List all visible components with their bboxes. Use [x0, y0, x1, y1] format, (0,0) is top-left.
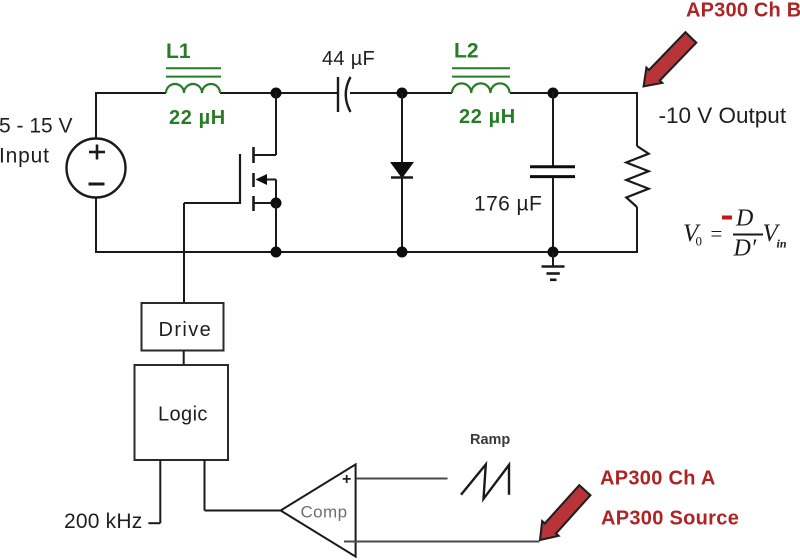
svg-text:200 kHz: 200 kHz: [64, 510, 142, 533]
svg-text:AP300 Source: AP300 Source: [601, 508, 739, 530]
arrow AP300 Ch B: [636, 30, 699, 94]
svg-text:L2: L2: [454, 40, 479, 63]
capacitor C1 44uF: [338, 77, 351, 112]
svg-text:Input: Input: [0, 145, 50, 168]
wire gate to drive: [184, 203, 241, 303]
wire left vertical bottom: [95, 197, 97, 253]
wire top rail: L2 to C2 node: [510, 92, 553, 94]
wire top rail: C1 to diode node: [350, 92, 402, 94]
box Drive: [142, 303, 224, 351]
svg-text:AP300 Ch B: AP300 Ch B: [686, 0, 800, 22]
resistor R1 (load): [626, 146, 648, 207]
inductor L1: [166, 68, 221, 93]
svg-text:Comp: Comp: [301, 503, 348, 522]
label 5 - 15 V Input: [0, 115, 73, 168]
wire top rail: L1 to C1: [220, 92, 338, 94]
transistor Q1 (MOSFET): [240, 92, 276, 211]
wire top rail: C2 node to right corner: [553, 92, 637, 94]
wire bottom rail: [95, 251, 637, 253]
wire top rail: source to L1: [95, 92, 166, 94]
node C (L2/C2/output): [548, 88, 559, 99]
node C2 bottom: [548, 247, 559, 258]
svg-text:44 µF: 44 µF: [322, 48, 375, 70]
svg-text:22 µH: 22 µH: [459, 106, 516, 128]
wire Q1 source to bottom rail: [275, 203, 277, 252]
svg-text:0: 0: [696, 234, 703, 249]
svg-text:176 µF: 176 µF: [474, 193, 542, 216]
svg-text:L1: L1: [166, 40, 191, 63]
svg-text:Drive: Drive: [159, 319, 213, 341]
node A (L1/C1/MOSFET drain): [271, 88, 282, 99]
wire Drive to Logic: [183, 351, 185, 366]
svg-text:AP300 Ch A: AP300 Ch A: [600, 468, 716, 490]
wire left vertical top: [95, 92, 97, 139]
ground: [542, 252, 565, 280]
wire top rail: diode node to L2: [402, 92, 452, 94]
voltage source V1: [67, 139, 126, 198]
node diode bottom: [397, 247, 408, 258]
ramp waveform: [461, 464, 509, 498]
svg-text:-10 V Output: -10 V Output: [659, 103, 787, 128]
svg-text:+: +: [342, 471, 351, 488]
svg-text:D′: D′: [733, 236, 757, 262]
node Q1 source on bottom rail: [271, 247, 282, 258]
node source of Q1: [271, 198, 282, 209]
diode D1: [391, 93, 413, 252]
arrow AP300 Ch A: [532, 483, 593, 548]
svg-text:5 - 15 V: 5 - 15 V: [0, 115, 73, 138]
wire right vertical bottom: [636, 207, 638, 253]
wire Logic to comparator: [205, 460, 281, 511]
node B (C1/diode/L2): [397, 88, 408, 99]
wire comparator plus input: [356, 478, 448, 480]
formula V0 = -D/D' Vin: [683, 206, 787, 262]
inductor L2: [452, 68, 510, 93]
svg-text:Ramp: Ramp: [470, 432, 510, 448]
svg-text:D: D: [735, 206, 753, 232]
svg-text:22 µH: 22 µH: [169, 107, 226, 129]
capacitor C2 176uF: [530, 92, 575, 252]
box Logic: [135, 365, 229, 460]
op-amp U1 comparator: [281, 464, 356, 556]
svg-text:Logic: Logic: [158, 404, 208, 426]
wire Logic to 200 kHz: [148, 460, 160, 523]
wire right vertical top: [636, 92, 638, 146]
svg-text:=: =: [711, 222, 723, 246]
wire comparator minus input: [344, 541, 540, 543]
svg-text:in: in: [777, 237, 787, 251]
